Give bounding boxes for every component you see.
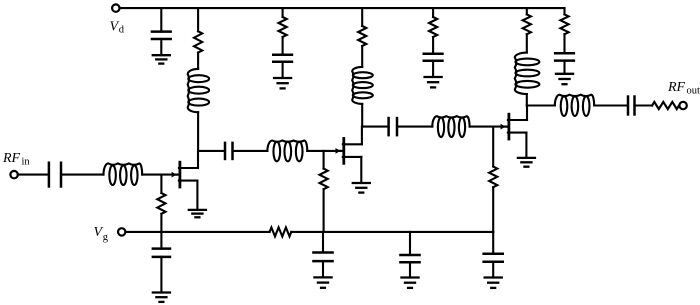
wire L1 to Q1 drain: [197, 112, 199, 151]
wire R5 top: [526, 8, 528, 14]
resistor R11: [270, 227, 292, 236]
label RFout: [667, 80, 700, 97]
transistor Q3 source lead: [508, 133, 527, 158]
wire Q2 drain to C7: [362, 126, 388, 128]
resistor R7: [157, 193, 165, 214]
capacitor C11: [399, 255, 421, 262]
capacitor C10: [312, 253, 334, 262]
svg-text:g: g: [103, 232, 109, 243]
capacitor C6: [225, 142, 233, 161]
wire C12 top: [492, 232, 494, 254]
svg-text:RF: RF: [667, 80, 686, 95]
transistor Q1 channel: [178, 162, 181, 187]
ground (C9): [152, 293, 171, 302]
capacitor C5: [49, 162, 61, 188]
terminal Vd: [112, 4, 119, 11]
terminal RFout: [679, 102, 686, 109]
wire RFin to C5: [18, 174, 49, 176]
wire Q1 gate node down: [160, 175, 162, 193]
wire C7 to L6: [397, 126, 432, 128]
label Vg: [94, 225, 109, 243]
wire R1 top: [197, 8, 199, 31]
wire top Vd rail: [120, 7, 565, 9]
inductor L4: [104, 163, 143, 185]
wire R3 top: [361, 8, 363, 26]
wire C9 bottom: [160, 257, 162, 293]
wire L7 to C8: [594, 104, 628, 106]
wire Q1 drain to C6: [198, 150, 225, 152]
wire Vg rail left: [126, 231, 270, 233]
wire C3 bottom: [432, 61, 434, 77]
wire R3-L2: [361, 46, 363, 67]
transistor Q3 drain lead: [508, 106, 527, 121]
inductor L3: [515, 53, 540, 94]
wire C5 to L4: [61, 174, 104, 176]
wire Vg rail right: [291, 231, 493, 233]
resistor R3: [358, 26, 366, 46]
resistor R2: [279, 17, 287, 37]
label Vd: [110, 20, 125, 36]
capacitor C7: [389, 117, 397, 137]
wire L6 to Q3 gate: [470, 126, 508, 128]
wire R1-L1: [197, 53, 199, 69]
ground (C11): [400, 278, 419, 288]
transistor Q3 gate arrow: [501, 124, 508, 130]
wire R9 to Vg rail: [492, 187, 494, 232]
wire R6 top: [563, 8, 565, 14]
capacitor C1: [151, 32, 172, 39]
wire Q3 drain to L7: [527, 104, 555, 106]
wire C10 top: [322, 232, 324, 253]
inductor L6: [432, 116, 469, 137]
inductor L2: [352, 67, 373, 104]
ground (C10): [313, 277, 332, 287]
wire L3 to Q3 drain: [526, 94, 528, 106]
ground (Q3 source): [517, 158, 536, 167]
capacitor C3: [423, 54, 444, 61]
capacitor C12: [482, 254, 504, 262]
ground (C1): [152, 55, 171, 63]
resistor R8: [320, 169, 328, 190]
capacitor C2: [272, 55, 293, 62]
wire C12 bottom: [492, 262, 494, 278]
wire node B down: [492, 127, 494, 167]
wire R8 to Vg rail: [323, 189, 325, 232]
capacitor C9: [152, 249, 172, 257]
resistor R6: [560, 14, 568, 34]
wire C2 bottom: [282, 62, 284, 78]
wire L4 to Q1 gate: [142, 174, 179, 176]
wire R4-C3: [432, 37, 434, 54]
transistor Q2 source lead: [343, 157, 362, 183]
resistor R1: [194, 31, 202, 52]
ground (Q2 source): [352, 183, 371, 193]
wire R7 to Vg rail: [160, 214, 162, 232]
inductor L5: [267, 140, 307, 161]
transistor Q1 source lead: [179, 181, 198, 210]
resistor R9: [489, 167, 497, 188]
wire C10 bottom: [322, 261, 324, 277]
transistor Q2 channel: [342, 139, 345, 164]
wire C9 top: [160, 232, 162, 249]
resistor R10: [652, 102, 679, 109]
ground (C12): [484, 278, 503, 288]
transistor Q3 channel: [507, 114, 510, 139]
wire R2 top: [282, 8, 284, 17]
label RFin: [2, 151, 30, 168]
wire C1 bottom: [160, 39, 162, 55]
wire R4 top: [432, 8, 434, 17]
ground (C3): [423, 77, 442, 87]
wire C11 bottom: [409, 262, 411, 277]
wire C4 bottom: [563, 61, 565, 74]
resistor R5: [523, 14, 531, 34]
transistor Q2 drain lead: [343, 127, 362, 145]
resistor R4: [429, 17, 437, 37]
wire L5 to Q2 gate: [307, 150, 343, 152]
transistor Q1 gate arrow: [172, 172, 179, 178]
svg-text:d: d: [119, 25, 125, 36]
svg-text:RF: RF: [2, 151, 21, 166]
wire C8 to R10: [635, 104, 653, 106]
ground (Q1 source): [188, 210, 207, 217]
wire L2 to Q2 drain: [361, 104, 363, 127]
wire R6-C4: [563, 34, 565, 53]
capacitor C4: [554, 53, 575, 60]
inductor L7: [555, 95, 594, 116]
wire R5-L3: [526, 34, 528, 52]
svg-text:out: out: [687, 86, 700, 97]
wire R2-C2: [282, 37, 284, 55]
ground (C2): [273, 78, 292, 88]
svg-text:in: in: [22, 157, 31, 168]
capacitor C8: [628, 95, 635, 115]
transistor Q2 gate arrow: [336, 148, 343, 154]
terminal RFin: [10, 171, 17, 178]
ground (C4): [555, 74, 574, 84]
inductor L1: [188, 69, 209, 112]
wire node A down: [323, 151, 325, 169]
wire C1 top: [160, 8, 162, 32]
terminal Vg: [118, 228, 125, 235]
wire C11 top: [409, 232, 411, 255]
transistor Q1 drain lead: [179, 151, 198, 168]
wire C6 to L5: [233, 150, 268, 152]
